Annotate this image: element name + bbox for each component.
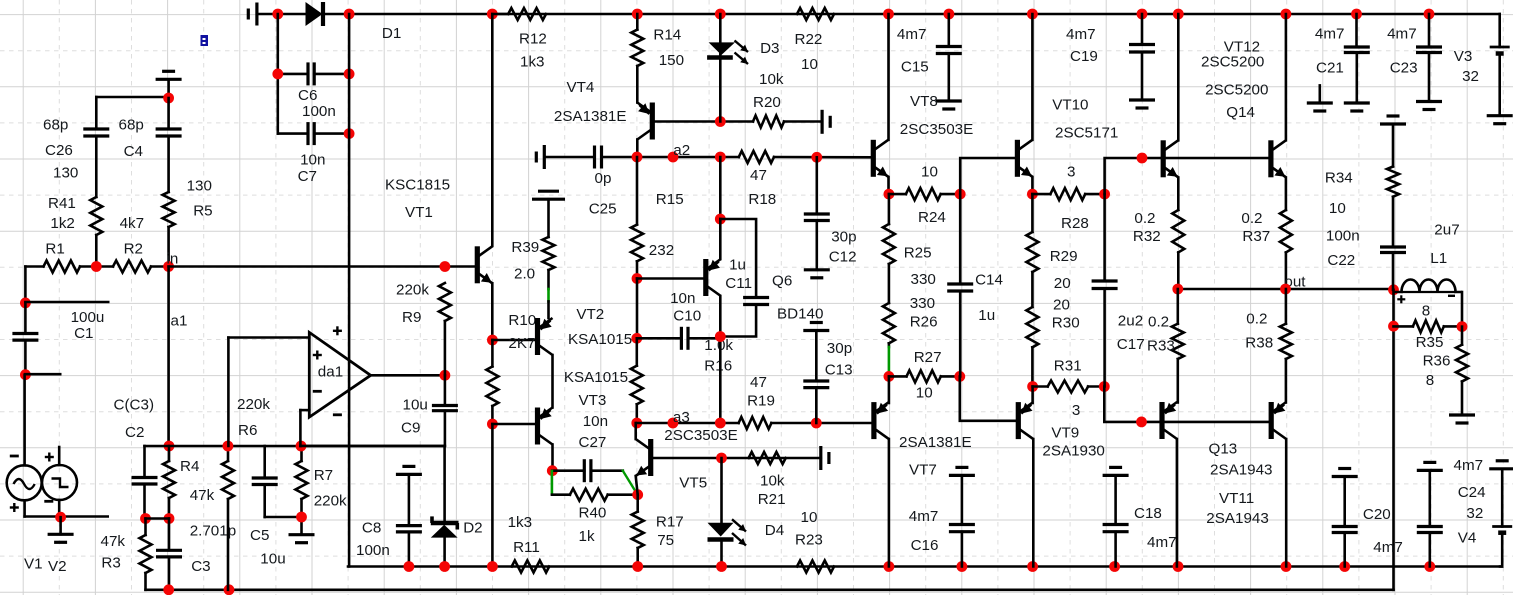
svg-text:R35: R35 xyxy=(1416,334,1444,351)
resistor R4 xyxy=(163,461,175,498)
label opamp plus in xyxy=(313,354,322,356)
node R28 left xyxy=(1027,189,1038,200)
svg-text:R23: R23 xyxy=(795,532,823,549)
svg-text:2SC5200: 2SC5200 xyxy=(1201,54,1264,71)
svg-text:47k: 47k xyxy=(101,533,126,550)
ground C15 xyxy=(936,99,962,102)
wire Q14 emitter xyxy=(1285,178,1288,211)
capacitor C6 xyxy=(278,73,308,76)
node VT1 base xyxy=(440,261,451,272)
resistor R36 xyxy=(1461,327,1464,345)
label V1 plus xyxy=(10,506,19,508)
svg-text:220k: 220k xyxy=(314,492,347,509)
svg-text:2SC5171: 2SC5171 xyxy=(1055,124,1118,141)
node R31 right xyxy=(1099,381,1110,392)
node C11 bottom xyxy=(715,331,726,342)
capacitor C8 xyxy=(396,473,422,476)
wire a1 row xyxy=(145,445,444,448)
svg-text:68p: 68p xyxy=(119,117,144,134)
wire VT8 emitter xyxy=(887,177,890,194)
wire R10 bottom xyxy=(491,424,494,567)
svg-text:8: 8 xyxy=(1422,302,1430,319)
svg-text:C2: C2 xyxy=(125,424,144,441)
node source gnd xyxy=(55,512,66,523)
svg-text:4m7: 4m7 xyxy=(1066,26,1096,43)
svg-text:R34: R34 xyxy=(1325,170,1353,187)
svg-text:2SA1381E: 2SA1381E xyxy=(554,108,627,125)
ground C21 xyxy=(1344,101,1370,104)
node C10 left xyxy=(631,333,642,344)
node R35 left xyxy=(1388,321,1399,332)
resistor R7 xyxy=(300,446,303,461)
wire VT5 emitter xyxy=(636,476,638,495)
capacitor C16 xyxy=(949,474,975,477)
battery V4 xyxy=(1489,467,1513,470)
transistor VT2 xyxy=(535,318,540,355)
resistor R3 xyxy=(144,519,147,536)
svg-text:C(C3): C(C3) xyxy=(114,397,155,414)
wire C6 branch xyxy=(276,14,279,134)
svg-text:75: 75 xyxy=(657,532,674,549)
capacitor C19 xyxy=(1141,14,1144,45)
svg-text:1k2: 1k2 xyxy=(50,215,75,232)
capacitor C2 xyxy=(143,446,146,478)
capacitor C10 xyxy=(637,337,681,340)
svg-text:C19: C19 xyxy=(1070,48,1098,65)
resistor R30 xyxy=(1031,272,1034,307)
transistor VT11 xyxy=(1159,402,1164,439)
capacitor C23 xyxy=(1428,14,1431,47)
node rail1 dots xyxy=(404,561,415,572)
resistor R41 xyxy=(90,197,102,235)
svg-text:R1: R1 xyxy=(45,240,64,257)
wire C9 return xyxy=(300,445,445,448)
wire VT10 emitter xyxy=(1031,177,1034,194)
source V2 xyxy=(42,465,77,500)
svg-text:1u: 1u xyxy=(729,256,746,273)
node a2 dots xyxy=(632,152,643,163)
svg-text:3: 3 xyxy=(1067,164,1075,181)
ground above R39 xyxy=(532,198,565,201)
node C1 top xyxy=(20,298,31,309)
ground R7 xyxy=(289,533,315,536)
wire C11 branch xyxy=(720,219,756,298)
svg-text:VT5: VT5 xyxy=(679,475,707,492)
resistor R34 xyxy=(1387,167,1399,197)
wire to VT9 base xyxy=(960,376,1017,420)
wire R15 to C10 xyxy=(636,279,639,339)
capacitor C15 xyxy=(947,14,950,47)
resistor R28 xyxy=(1050,188,1085,200)
node R7 C5 xyxy=(296,512,307,523)
resistor R22 xyxy=(797,8,834,20)
svg-text:C27: C27 xyxy=(579,434,607,451)
svg-text:R14: R14 xyxy=(653,26,681,43)
svg-text:R17: R17 xyxy=(656,514,684,531)
svg-text:100n: 100n xyxy=(356,542,390,559)
label L1 plus xyxy=(1397,298,1405,300)
svg-text:Q13: Q13 xyxy=(1209,440,1238,457)
svg-text:R4: R4 xyxy=(180,458,199,475)
capacitor C22 xyxy=(1380,245,1406,248)
svg-text:VT1: VT1 xyxy=(405,204,433,221)
node R36 top xyxy=(1457,321,1468,332)
capacitor C26 xyxy=(83,127,109,130)
svg-text:4m7: 4m7 xyxy=(1373,539,1403,556)
svg-text:VT3: VT3 xyxy=(579,392,607,409)
svg-text:0.2: 0.2 xyxy=(1134,210,1155,227)
node opamp out xyxy=(440,370,451,381)
svg-text:D4: D4 xyxy=(765,522,784,539)
svg-text:32: 32 xyxy=(1466,505,1483,522)
wire VT12 emitter xyxy=(1177,178,1180,211)
svg-text:4m7: 4m7 xyxy=(909,508,939,525)
svg-text:C4: C4 xyxy=(124,143,143,160)
label V2 plus xyxy=(45,456,54,458)
svg-text:10n: 10n xyxy=(670,290,695,307)
capacitor C11 xyxy=(743,296,769,299)
wire green R40 xyxy=(551,471,554,494)
svg-text:232: 232 xyxy=(649,242,674,259)
source V1 xyxy=(7,465,42,500)
svg-text:100n: 100n xyxy=(1326,228,1360,245)
resistor R38 xyxy=(1285,289,1288,324)
svg-text:a1: a1 xyxy=(171,313,188,330)
node base wire dot2 xyxy=(1136,417,1147,428)
svg-text:C13: C13 xyxy=(825,362,853,379)
wire V1 bottom xyxy=(23,500,26,516)
svg-text:10u: 10u xyxy=(403,397,428,414)
svg-text:VT2: VT2 xyxy=(576,306,604,323)
resistor R18 xyxy=(739,151,774,163)
svg-text:KSC1815: KSC1815 xyxy=(385,176,450,193)
svg-text:C10: C10 xyxy=(673,307,701,324)
svg-text:VT11: VT11 xyxy=(1219,490,1254,507)
ground R36 xyxy=(1449,413,1475,416)
wire VT3 base xyxy=(492,423,535,426)
wire input left xyxy=(24,267,27,303)
ground C23 xyxy=(1416,100,1442,103)
wire VT5 collector xyxy=(634,423,637,439)
svg-text:R38: R38 xyxy=(1245,335,1273,352)
svg-text:C18: C18 xyxy=(1134,505,1162,522)
svg-text:da1: da1 xyxy=(318,364,343,381)
capacitor C4 xyxy=(167,98,170,129)
ground above R34 xyxy=(1380,122,1406,125)
svg-text:1k3: 1k3 xyxy=(520,53,545,70)
resistor R15 xyxy=(636,157,639,225)
svg-text:R26: R26 xyxy=(910,313,938,330)
svg-text:68p: 68p xyxy=(43,117,68,134)
resistor R31 xyxy=(1048,381,1088,393)
wire to VT11 base xyxy=(1104,387,1269,422)
svg-text:2SA1381E: 2SA1381E xyxy=(899,434,972,451)
svg-text:R33: R33 xyxy=(1147,338,1175,355)
svg-text:R18: R18 xyxy=(748,191,776,208)
svg-text:V3: V3 xyxy=(1454,48,1473,65)
resistor R25 xyxy=(888,194,891,224)
transistor VT8 xyxy=(887,14,890,140)
op-amp da1 xyxy=(309,332,370,417)
node a3 R16 xyxy=(631,418,642,429)
svg-text:C7: C7 xyxy=(298,168,317,185)
wire VT4 base xyxy=(653,120,753,123)
svg-text:1k3: 1k3 xyxy=(508,514,532,531)
svg-text:1k: 1k xyxy=(579,528,595,545)
wire VT5 base xyxy=(653,457,821,460)
svg-text:220k: 220k xyxy=(237,396,270,413)
svg-text:0.2: 0.2 xyxy=(1241,210,1262,227)
transistor VT10 xyxy=(1031,14,1034,140)
svg-text:C22: C22 xyxy=(1327,252,1355,269)
svg-text:R2: R2 xyxy=(124,240,143,257)
wire V1 top lead xyxy=(23,375,26,466)
resistor R20 xyxy=(753,116,784,128)
svg-text:VT7: VT7 xyxy=(909,461,937,478)
svg-text:30p: 30p xyxy=(831,229,856,246)
svg-text:10: 10 xyxy=(916,385,933,402)
svg-text:V2: V2 xyxy=(48,558,67,575)
wire VT2 base xyxy=(492,339,535,342)
wire C11 return xyxy=(720,305,756,337)
node R27 right xyxy=(954,371,965,382)
svg-text:47: 47 xyxy=(750,374,767,391)
svg-text:R41: R41 xyxy=(48,195,76,212)
transistor VT3 xyxy=(535,408,540,445)
svg-text:R6: R6 xyxy=(238,422,257,439)
svg-text:150: 150 xyxy=(659,52,684,69)
wire rail2 xyxy=(146,588,1394,591)
label opamp plus out xyxy=(333,330,342,332)
capacitor C1 xyxy=(24,303,27,334)
svg-text:R40: R40 xyxy=(579,505,607,522)
wire green C27 xyxy=(623,471,637,493)
svg-text:R9: R9 xyxy=(402,309,421,326)
wire L1 right xyxy=(1461,292,1464,327)
resistor R21 xyxy=(749,452,786,464)
wire xyxy=(257,13,306,16)
svg-text:VT4: VT4 xyxy=(567,79,595,96)
svg-text:8: 8 xyxy=(1426,372,1434,389)
svg-text:R25: R25 xyxy=(904,245,932,262)
resistor R23 xyxy=(797,561,834,573)
svg-text:32: 32 xyxy=(1462,68,1479,85)
svg-text:10n: 10n xyxy=(300,152,325,169)
node R24 left xyxy=(884,189,895,200)
wire C2-R4 link xyxy=(146,517,170,520)
svg-text:in: in xyxy=(167,251,179,268)
label V2 minus xyxy=(44,500,53,503)
resistor R27 xyxy=(907,370,941,382)
svg-text:4m7: 4m7 xyxy=(1315,26,1345,43)
node V+ junctions xyxy=(272,9,283,20)
capacitor C18 xyxy=(1103,474,1129,477)
wire source bottoms xyxy=(25,515,108,518)
diode D3 LED xyxy=(719,14,722,122)
resistor R14 xyxy=(636,14,639,30)
wire Q6 collector xyxy=(719,157,722,219)
capacitor C24 xyxy=(1417,469,1443,472)
svg-text:C17: C17 xyxy=(1117,336,1145,353)
svg-text:C3: C3 xyxy=(191,558,210,575)
node C27 left xyxy=(547,465,558,476)
capacitor C7 xyxy=(278,132,308,135)
svg-text:R15: R15 xyxy=(656,191,684,208)
svg-text:R36: R36 xyxy=(1423,353,1451,370)
node in top xyxy=(163,93,174,104)
svg-text:L1: L1 xyxy=(1430,250,1447,267)
ground V3 xyxy=(1487,114,1513,117)
svg-text:2SA1943: 2SA1943 xyxy=(1210,462,1273,479)
svg-text:20: 20 xyxy=(1054,275,1071,292)
resistor R16 xyxy=(635,338,638,365)
svg-text:VT9: VT9 xyxy=(1051,424,1079,441)
svg-text:R27: R27 xyxy=(914,349,942,366)
node VT2 base xyxy=(487,335,498,346)
resistor R26 xyxy=(888,264,891,303)
node R6 top xyxy=(223,441,234,452)
wire to VT12 base xyxy=(1105,158,1270,194)
wire opamp output xyxy=(371,374,445,377)
svg-text:2.0: 2.0 xyxy=(514,266,535,283)
capacitor C17 xyxy=(1103,194,1106,281)
wire VT11 collector xyxy=(1176,439,1179,567)
wire stub xyxy=(25,301,108,304)
wire rail1 xyxy=(348,565,1500,568)
label opamp minus out xyxy=(333,413,342,416)
svg-text:C1: C1 xyxy=(74,325,93,342)
capacitor C27 xyxy=(552,469,584,472)
ground V1 V2 xyxy=(59,517,62,534)
node C13 bottom xyxy=(811,418,822,429)
resistor R12 xyxy=(492,13,508,16)
svg-text:R37: R37 xyxy=(1242,228,1270,245)
svg-text:10k: 10k xyxy=(760,473,785,490)
resistor R19 xyxy=(739,417,772,429)
node rail2 C3 xyxy=(163,584,174,595)
svg-text:R39: R39 xyxy=(511,239,539,256)
svg-text:100u: 100u xyxy=(71,309,105,326)
node R24 right xyxy=(955,189,966,200)
wire Q6 base xyxy=(637,277,706,280)
svg-text:10: 10 xyxy=(1329,200,1346,217)
wire VT2-VT3 xyxy=(551,355,554,408)
node VT4 base xyxy=(715,116,726,127)
svg-text:47: 47 xyxy=(750,167,767,184)
wire Q13 collector xyxy=(1285,439,1288,567)
svg-text:2K7: 2K7 xyxy=(508,335,535,352)
capacitor C9 xyxy=(444,375,447,405)
resistor R9 xyxy=(444,321,447,375)
capacitor C20 xyxy=(1332,475,1358,478)
svg-text:4m7: 4m7 xyxy=(1387,26,1417,43)
transistor Q13 xyxy=(1269,402,1274,439)
svg-text:4m7: 4m7 xyxy=(1147,534,1177,551)
svg-text:R10: R10 xyxy=(508,312,536,329)
transistor VT12 xyxy=(1177,14,1180,140)
capacitor C14 xyxy=(959,194,962,284)
resistor R17 xyxy=(636,495,639,512)
svg-text:C9: C9 xyxy=(401,419,420,436)
node R31 left xyxy=(1027,381,1038,392)
wire to C25 xyxy=(544,156,594,159)
node R40 right xyxy=(632,489,643,500)
svg-text:C26: C26 xyxy=(45,142,73,159)
node VT5 base xyxy=(716,453,727,464)
connector R20 end xyxy=(820,110,823,134)
resistor R10 xyxy=(491,340,494,367)
wire VT1 emitter xyxy=(491,283,494,340)
wire input top xyxy=(96,96,168,99)
resistor R40 xyxy=(552,493,570,496)
wire opamp minus input xyxy=(299,410,302,446)
wire out rail xyxy=(1178,288,1394,291)
svg-text:10: 10 xyxy=(801,56,818,73)
resistor R37 xyxy=(1280,210,1292,252)
wire a2 row xyxy=(602,156,739,159)
node R18 right xyxy=(811,152,822,163)
capacitor C3 xyxy=(168,519,171,551)
node rail2 R6 xyxy=(224,584,235,595)
svg-text:130: 130 xyxy=(53,165,78,182)
svg-text:R16: R16 xyxy=(704,358,732,375)
svg-text:D2: D2 xyxy=(463,520,482,537)
node R1 R2 xyxy=(91,261,102,272)
ground symbol above C4 xyxy=(156,78,182,81)
node Q6 top xyxy=(715,214,726,225)
ground floating xyxy=(1319,85,1322,103)
resistor R6 xyxy=(227,446,230,461)
transistor VT4 xyxy=(650,103,655,140)
resistor R24 xyxy=(906,188,941,200)
svg-text:D1: D1 xyxy=(382,25,401,42)
svg-text:R12: R12 xyxy=(519,31,547,48)
transistor Q14 xyxy=(1285,14,1288,140)
connector C25 input xyxy=(543,145,546,169)
transistor VT9 xyxy=(1016,402,1021,439)
svg-text:20: 20 xyxy=(1053,296,1070,313)
node base wire dot xyxy=(1137,153,1148,164)
wire opamp plus input xyxy=(227,338,230,447)
wire top rail xyxy=(323,13,1500,16)
node C1 bottom xyxy=(20,369,31,380)
svg-text:R29: R29 xyxy=(1050,248,1078,265)
resistor R35 xyxy=(1394,325,1413,328)
svg-text:C14: C14 xyxy=(975,272,1003,289)
wire in to VT1 base xyxy=(169,265,476,268)
wire to VT10 base xyxy=(960,158,1017,194)
capacitor C5 xyxy=(263,446,266,478)
node Q6 base node xyxy=(632,273,643,284)
svg-text:1u: 1u xyxy=(978,307,995,324)
wire Q6 collector down xyxy=(719,296,722,423)
node R28 right xyxy=(1099,189,1110,200)
svg-text:C12: C12 xyxy=(829,248,857,265)
connector R21 end xyxy=(819,446,822,470)
node in xyxy=(163,261,174,272)
svg-text:3: 3 xyxy=(1072,402,1080,419)
svg-text:220k: 220k xyxy=(396,282,429,299)
wire VT4 collector xyxy=(636,140,639,158)
svg-text:R7: R7 xyxy=(314,467,333,484)
wire x349 vertical xyxy=(348,14,351,567)
svg-text:2u2: 2u2 xyxy=(1118,312,1143,329)
svg-text:0p: 0p xyxy=(595,170,612,187)
transistor Q6 xyxy=(703,259,708,296)
node VT3 base xyxy=(487,419,498,430)
svg-text:C8: C8 xyxy=(362,520,381,537)
node R4 top xyxy=(164,441,175,452)
